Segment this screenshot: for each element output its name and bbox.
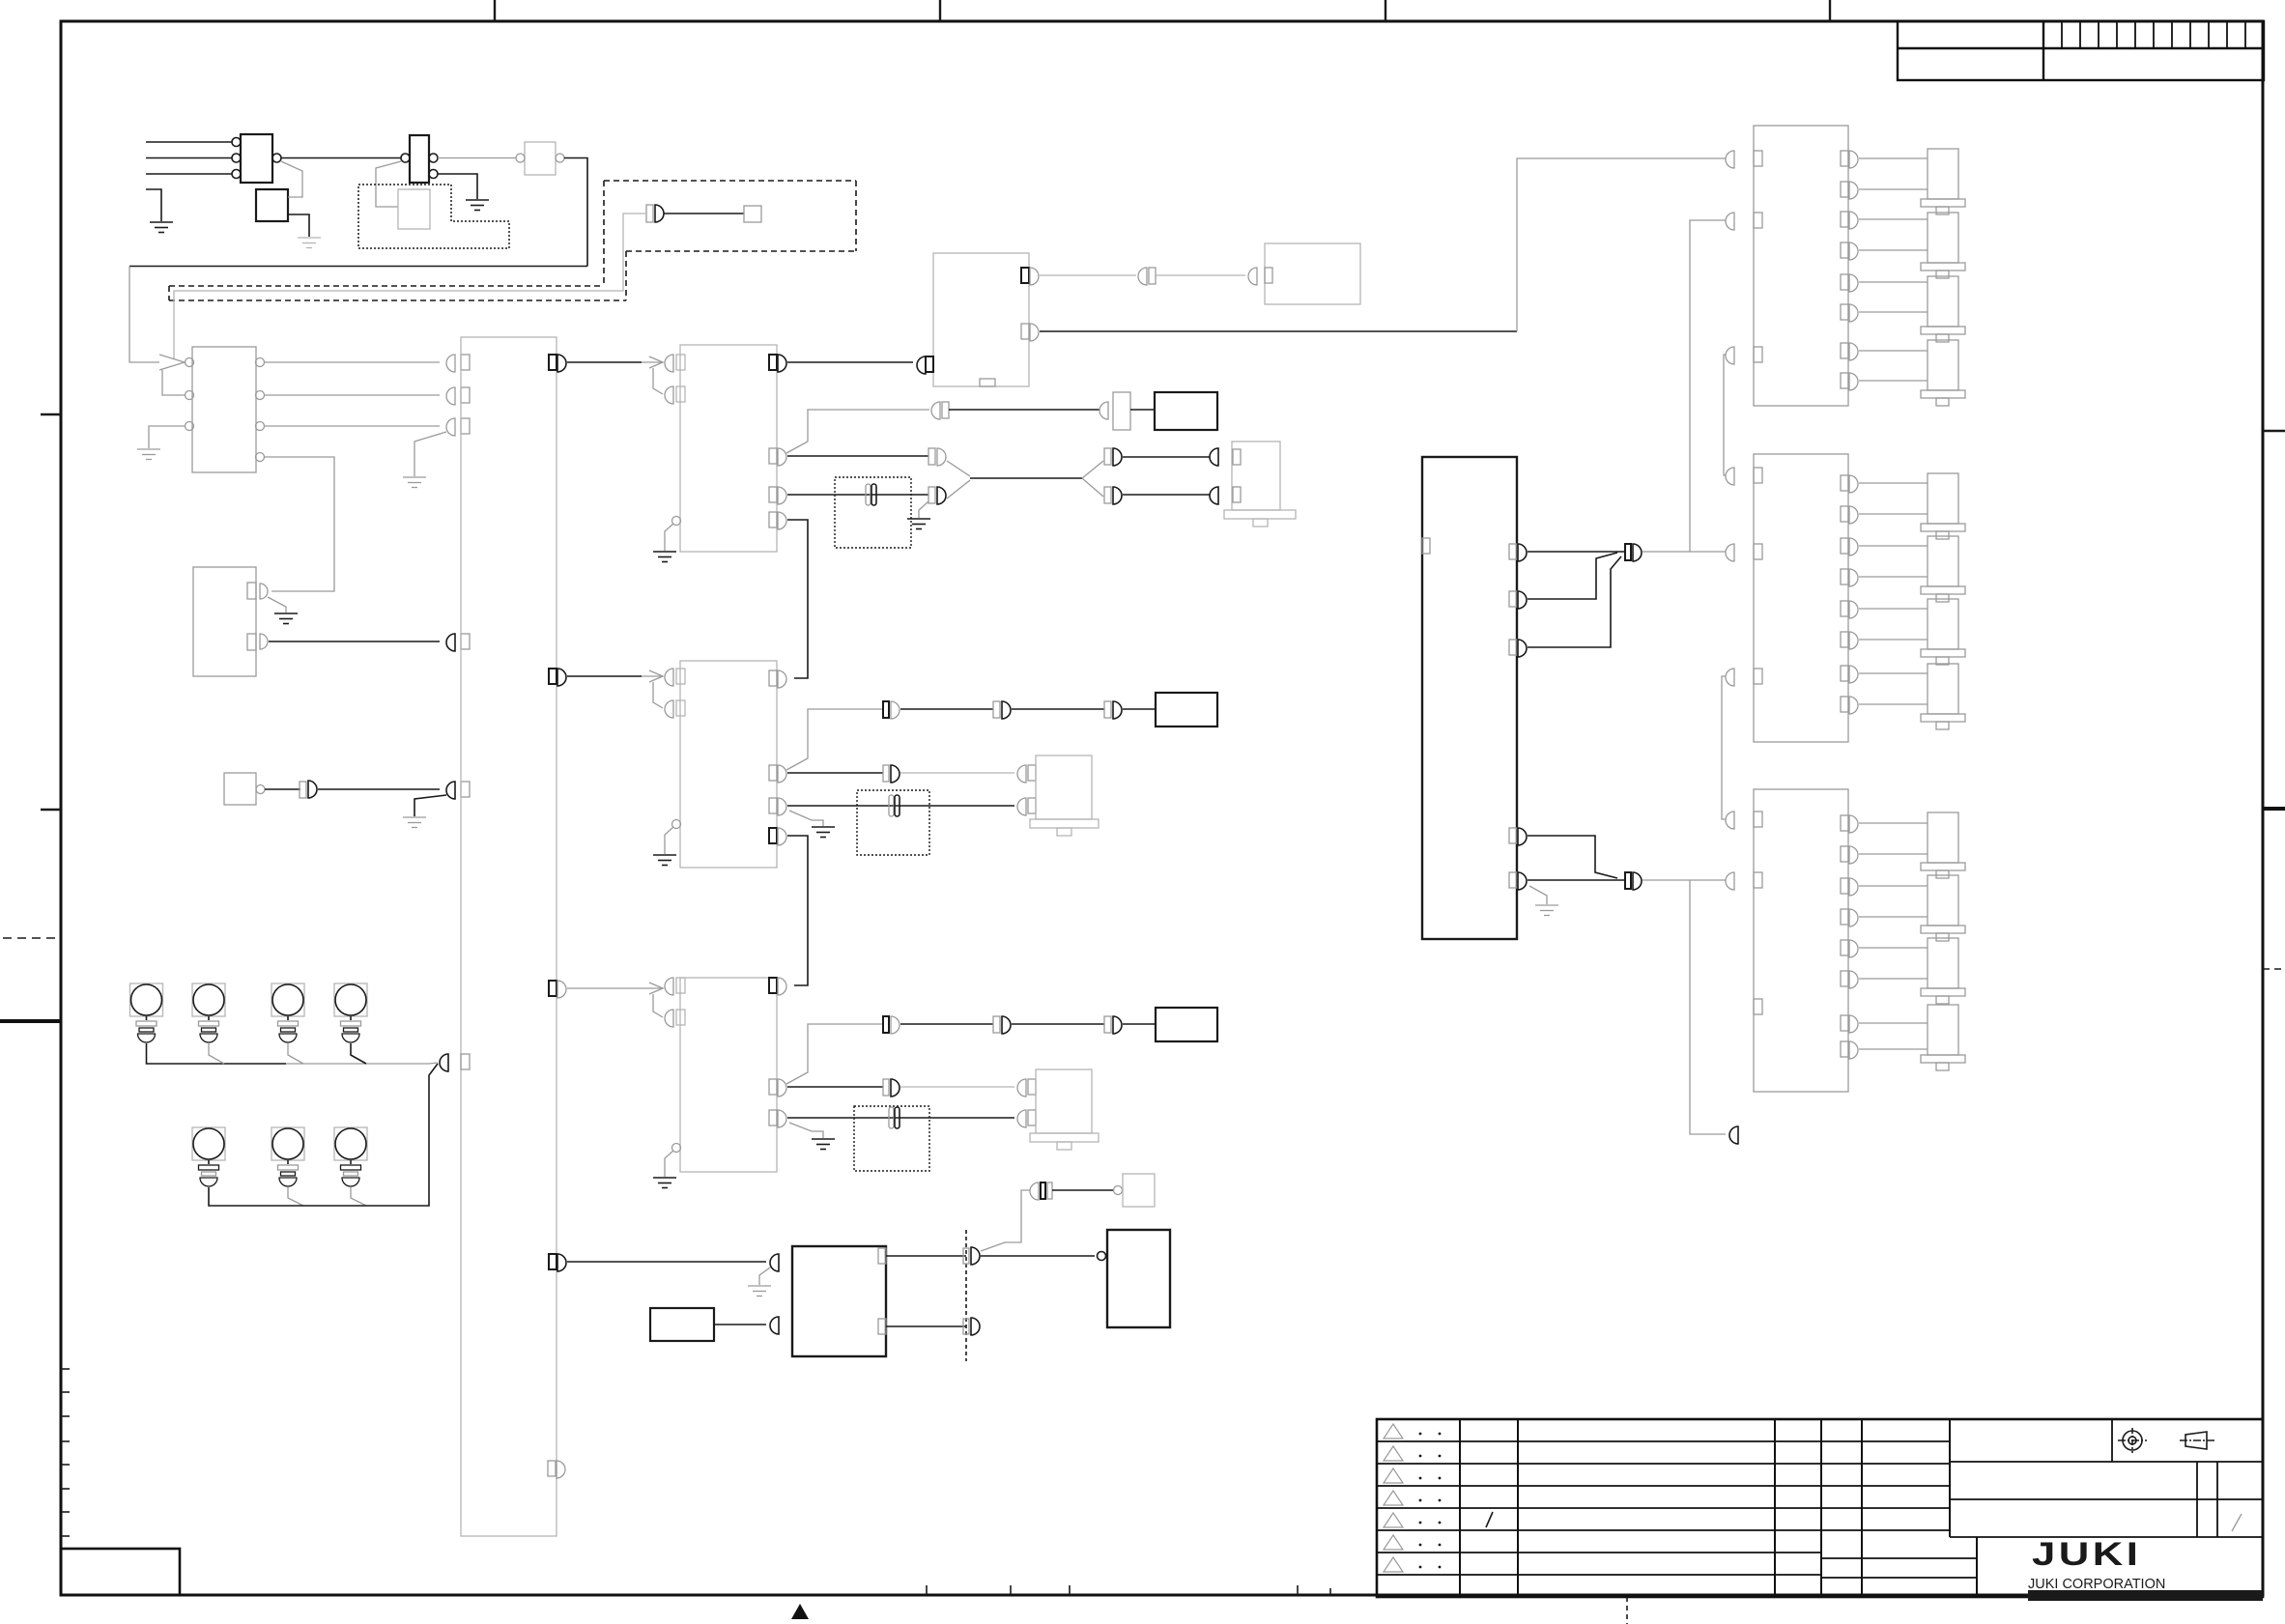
wire C to ground G3 <box>438 174 477 199</box>
bus left pin row1099 <box>440 1054 448 1071</box>
riser to B1 pin2 <box>1690 220 1726 552</box>
relay block C <box>410 135 429 183</box>
dotted box M1d <box>835 477 911 548</box>
harness split M1 <box>1082 461 1103 478</box>
ground symbol G10 <box>812 827 835 838</box>
bus right pin row1520 <box>548 1461 556 1476</box>
left border tick a <box>41 413 61 415</box>
motor3 connector D1 <box>1017 1079 1026 1097</box>
wire M2P2 <box>787 772 883 774</box>
output board B3 <box>1754 789 1848 1092</box>
ground symbol G1 <box>150 222 173 233</box>
right border tick a <box>2263 430 2285 432</box>
M3 input chevron <box>642 983 663 1017</box>
bus wire to module1 <box>567 361 642 363</box>
left border ruler ticks <box>61 1369 70 1536</box>
wire M3P2 <box>787 1086 883 1088</box>
ground symbol G15 <box>748 1286 771 1296</box>
ground symbol G11 <box>653 855 676 866</box>
dashed harness enclosure A <box>169 181 856 300</box>
M2 pin P1 <box>769 670 777 686</box>
M2P2 gray riser to row734 <box>786 709 883 770</box>
bus pin row375 <box>446 355 455 372</box>
pin circles block D <box>516 154 564 162</box>
dotted box M3d <box>854 1106 929 1171</box>
wire A to C <box>281 157 401 159</box>
B3 left pin 911 <box>1726 872 1734 890</box>
bus right pin row1023 <box>549 981 557 996</box>
JUKI black bar <box>2028 1590 2263 1601</box>
transformer box N <box>650 1308 714 1341</box>
top-right title table <box>1898 21 2264 80</box>
left border tick b <box>41 809 61 811</box>
wire K5 to pair <box>1528 879 1625 881</box>
dotted enclosure filter <box>358 185 509 248</box>
bus pin row817 <box>446 782 455 799</box>
long wire to left edge <box>129 266 587 268</box>
block G bottom pin <box>980 379 995 386</box>
M3 bottom circle pin <box>672 1144 681 1153</box>
motor 3 assembly <box>1028 1079 1036 1095</box>
bus wire to PSU <box>567 1261 766 1263</box>
module M1 driver board <box>680 345 777 552</box>
M1P2 gray riser to row424 <box>786 410 929 453</box>
K pin1 <box>1509 544 1517 559</box>
M1 input chevron <box>642 356 663 394</box>
wire E out1 <box>264 361 440 363</box>
wire down left side <box>129 267 130 363</box>
M1 pin P2 <box>769 448 777 464</box>
top border tick 4 <box>1829 0 1831 21</box>
pair connector row1232 <box>1030 1182 1039 1200</box>
K pin2 <box>1509 591 1517 607</box>
gray link A to B <box>281 161 302 197</box>
PSU left pin2 D <box>770 1317 779 1334</box>
M3 pin P3 <box>769 1110 777 1125</box>
M2 input chevron <box>642 670 663 708</box>
right border thick tick <box>2263 807 2285 811</box>
wire E out3 <box>264 425 440 427</box>
motor2 connector D1 <box>1017 765 1026 783</box>
aux box M <box>1123 1174 1155 1207</box>
row1060 wire a <box>900 1023 993 1025</box>
wire E out2 <box>264 394 440 396</box>
wire N to PSU <box>714 1324 766 1325</box>
pair top <box>1625 544 1631 560</box>
projection slash symbol <box>2232 1514 2242 1531</box>
capacitor M1 <box>866 484 876 505</box>
ground symbol G14 <box>1535 905 1558 916</box>
wire E out4 routed down <box>264 457 334 591</box>
M2 pin P4 <box>769 828 777 843</box>
wire input 2 <box>146 157 232 159</box>
lamp row1 stems <box>136 1016 361 1042</box>
link B1pin3 to B2pin1 <box>1724 355 1726 475</box>
gray drop to ground from row441 <box>414 432 446 476</box>
connector at H <box>1248 268 1257 285</box>
motor2 connector D2 <box>1017 798 1026 815</box>
boundary connector row1300 <box>963 1248 969 1264</box>
motor m9 <box>1921 812 1965 878</box>
bottom border ticks <box>927 1585 1330 1595</box>
first-angle cone symbol <box>2180 1432 2214 1449</box>
block F pin1 <box>247 583 256 599</box>
M2 ground drop <box>665 827 673 854</box>
control box K3 <box>1156 1008 1217 1041</box>
B3 left pin 848 <box>1726 812 1734 829</box>
output board B1 <box>1754 126 1848 406</box>
row1125 gray wire to motor <box>900 1086 1014 1088</box>
B1 left pin 164 <box>1726 151 1734 168</box>
control box K1 <box>1155 392 1217 430</box>
row1060 pair 3 <box>1104 1016 1111 1033</box>
K pin3 <box>1509 640 1517 655</box>
module M3 driver board <box>680 978 777 1172</box>
motor m6 <box>1921 536 1965 602</box>
top border tick 2 <box>939 0 941 21</box>
drop to lone pin <box>1690 880 1726 1134</box>
top border tick 3 <box>1385 0 1386 21</box>
block E controller <box>192 347 256 472</box>
head wires M1 <box>1123 456 1210 458</box>
row1060 wire b <box>1012 1023 1104 1025</box>
ground symbol G5 <box>403 477 426 488</box>
B2 motor wires <box>1859 483 1928 704</box>
M2 pin P3 <box>769 798 777 813</box>
motor m2 <box>1921 213 1965 278</box>
lamp row2 <box>192 1127 367 1160</box>
pair row285 <box>1138 268 1147 285</box>
pairB row512 <box>928 487 935 503</box>
pair connector row817 <box>300 782 306 798</box>
long wire G to right column <box>1040 330 1517 332</box>
top-right title table column cells <box>2062 21 2245 48</box>
wire F to bus row664 <box>269 641 440 642</box>
ground symbol G12 <box>812 1139 835 1150</box>
terminal block A <box>241 134 272 183</box>
gray branch up from row1300 <box>981 1190 1030 1251</box>
row1060 wire c <box>1123 1023 1156 1025</box>
wire M2P3 <box>787 805 1014 807</box>
B3 motor wires <box>1859 823 1928 1049</box>
revision table columns <box>1460 1419 1977 1597</box>
PSU right pin1 <box>878 1248 886 1264</box>
wire row285 to H <box>1156 274 1245 276</box>
M3P2 gray riser to row1060 <box>786 1024 883 1084</box>
row734 pair 3 <box>1104 701 1111 718</box>
K5 ground drop <box>1529 886 1547 904</box>
riser to block B1 <box>1517 158 1726 331</box>
module M2 driver board <box>680 661 777 868</box>
ground drop M3P3 <box>789 1123 823 1138</box>
wire M2P4 down to M3 <box>787 836 808 985</box>
wire input 1 <box>146 141 232 143</box>
ground symbol G8 <box>907 519 930 529</box>
head D connectors <box>1210 448 1218 466</box>
pin circles block A <box>232 138 281 179</box>
bus pin row409 <box>446 387 455 405</box>
bus wire to module2 <box>567 675 642 677</box>
boundary connector row1373 <box>963 1319 969 1334</box>
output board B2 <box>1754 454 1848 742</box>
motor 2 assembly <box>1028 765 1036 781</box>
lamp row2 harness <box>209 1187 286 1206</box>
row424 connector <box>931 402 940 419</box>
row734 wire c <box>1123 708 1156 710</box>
M1 pin P3 <box>769 487 777 502</box>
wire K4 join <box>1528 836 1617 878</box>
operation panel H <box>1265 243 1360 304</box>
block E pin circles <box>186 358 265 462</box>
B2 left pin 700 <box>1726 669 1734 686</box>
terminal block B <box>256 189 288 221</box>
right border dashed tick <box>2263 968 2285 970</box>
left border dashed tick <box>3 937 61 939</box>
power supply box PSU <box>792 1246 886 1356</box>
pedal unit J <box>224 773 256 805</box>
row734 pair 2 <box>993 701 1000 718</box>
ground symbol G3 <box>466 200 489 211</box>
ground stub input <box>146 189 161 221</box>
ground symbol G4 <box>137 449 160 460</box>
wire M1P4 down to M2 <box>787 520 808 678</box>
noise filter D block <box>525 142 556 175</box>
M1 pin P1 <box>769 355 777 370</box>
wire M3P3 <box>787 1117 1014 1119</box>
ground symbol G6 <box>274 613 298 624</box>
block F pin2 <box>247 634 256 650</box>
PSU left pin1 D <box>770 1254 779 1271</box>
filter block I <box>398 189 430 229</box>
control box K2 <box>1156 693 1217 727</box>
motor m4 <box>1921 340 1965 406</box>
wire D right and down <box>564 158 587 267</box>
B3 bottom-left pin <box>1754 999 1762 1014</box>
wire row1232 to box M <box>1052 1189 1113 1191</box>
link B2pin3 to B3pin1 <box>1722 676 1726 819</box>
wire pair to bus row817 <box>318 788 440 790</box>
row424 housing <box>1113 392 1130 430</box>
left border thick tick <box>0 1019 61 1023</box>
K left pin <box>1422 538 1430 554</box>
revision table outer <box>1377 1419 2263 1597</box>
gray wire C to filter block <box>376 161 401 207</box>
svg-text:JUKI: JUKI <box>2032 1535 2141 1572</box>
wire J to pair <box>265 788 300 790</box>
slash in revision cell <box>1486 1512 1493 1527</box>
row734 wire b <box>1012 708 1104 710</box>
block F sensor unit <box>193 567 256 676</box>
ground symbol G13 <box>653 1178 676 1188</box>
lone pin D <box>1729 1126 1738 1144</box>
first-angle crosshair symbol <box>2118 1428 2147 1453</box>
wire K1 to pair <box>1528 551 1625 553</box>
wire to box L <box>981 1255 1095 1257</box>
row1125 pair <box>883 1079 889 1096</box>
pair top output <box>1642 551 1726 553</box>
gray harness wire <box>174 214 645 359</box>
M2 bottom circle pin <box>672 820 681 829</box>
wire B to ground <box>288 214 309 237</box>
M1 bottom circle pin <box>672 517 681 526</box>
wire PSU out1 <box>886 1255 966 1257</box>
M1 ground drop <box>665 524 673 551</box>
wire M1P2 row <box>787 455 928 457</box>
bus wire to module3 <box>567 987 642 989</box>
B2 right pins <box>1841 475 1858 714</box>
gray wire C to D <box>438 157 516 159</box>
row734 wire a <box>900 708 993 710</box>
revision table rows left section <box>1377 1441 1977 1578</box>
B1 left pin 367 <box>1726 347 1734 364</box>
ground drop M2P3 <box>789 811 823 826</box>
row1060 connector <box>883 1016 889 1033</box>
svg-text:JUKI CORPORATION: JUKI CORPORATION <box>2028 1577 2165 1592</box>
motor m1 <box>1921 149 1965 214</box>
wire M1P1 to block G <box>787 361 913 363</box>
B2 left pin 492 <box>1726 468 1734 485</box>
row424 connector 2 <box>1100 402 1108 419</box>
M3 pin P1 <box>769 978 777 993</box>
motor3 connector D2 <box>1017 1110 1026 1127</box>
lamp row1 harness <box>147 1043 287 1064</box>
B1 right pins <box>1841 151 1858 390</box>
K pin4 <box>1509 828 1517 843</box>
bus pin row441 <box>446 418 455 436</box>
B1 motor wires <box>1859 158 1928 381</box>
pair bottom output <box>1642 879 1726 881</box>
bus pin row664 <box>446 634 455 651</box>
motor m5 <box>1921 473 1965 539</box>
PSU right pin2 <box>878 1319 886 1334</box>
capacitor M3 <box>889 1107 900 1128</box>
motor m3 <box>1921 276 1965 342</box>
ground symbol G9 <box>653 552 676 562</box>
panel dashed boundary <box>965 1230 967 1361</box>
block G left pin <box>917 356 926 374</box>
head unit body <box>1232 442 1280 510</box>
bus right pin row1306 <box>549 1254 557 1269</box>
wire input 3 <box>146 173 232 175</box>
wire PSU out2 <box>886 1325 966 1327</box>
M1 pin P4 <box>769 512 777 527</box>
wire housing to K1 <box>1130 409 1155 411</box>
ground symbol G7 <box>403 817 426 828</box>
B3 right pins <box>1841 815 1858 1059</box>
B2 left pin 571 <box>1726 544 1734 561</box>
bus right pin row375 <box>549 355 557 370</box>
bus right pin row700 <box>549 669 557 684</box>
M2 pin P2 <box>769 765 777 781</box>
pairA row472 <box>928 448 935 465</box>
row734 connector <box>883 701 889 718</box>
lamp row2 stems <box>199 1160 361 1186</box>
motor m8 <box>1921 664 1965 729</box>
drop to ground row817 <box>414 795 446 816</box>
M3 ground drop <box>665 1151 673 1177</box>
main bus board <box>461 337 557 1536</box>
capacitor M2 <box>889 795 900 816</box>
harness trunk M1 <box>970 477 1082 479</box>
bottom-left reference box <box>61 1549 180 1595</box>
bottom center triangle marker <box>791 1604 809 1619</box>
B1 left pin 228 <box>1726 213 1734 230</box>
motor m12 <box>1921 1005 1965 1070</box>
wire E pin3 to ground <box>149 426 185 448</box>
small plug square <box>744 206 761 222</box>
drop to ground from F pin1 <box>268 597 286 613</box>
motor m10 <box>1921 875 1965 941</box>
ground symbol G2 gray <box>298 238 321 248</box>
lamp row1 <box>130 983 368 1016</box>
K pin5 <box>1509 872 1517 888</box>
pair bottom <box>1625 872 1631 889</box>
harness merge M1 <box>947 461 970 476</box>
row800 pair <box>883 765 889 782</box>
block G top-right pin <box>1021 268 1029 283</box>
head unit flange <box>1224 510 1296 519</box>
PSU pin1 ground drop <box>759 1268 770 1285</box>
relay board K <box>1422 457 1517 939</box>
interface block G <box>933 253 1029 386</box>
row1060 pair 2 <box>993 1016 1000 1033</box>
machine control box L <box>1107 1230 1170 1327</box>
row424 wire <box>949 409 1100 411</box>
wire M1P3 row <box>787 494 928 496</box>
pairs right M1 <box>1104 448 1111 465</box>
connector pair in harness <box>646 205 653 222</box>
chevron input arrow <box>129 355 185 395</box>
row800 gray wire to motor <box>900 772 1014 774</box>
top border tick 1 <box>494 0 496 21</box>
wire to small plug <box>664 213 744 214</box>
motor m11 <box>1921 938 1965 1004</box>
wire G to pair row285 <box>1040 274 1136 276</box>
ground drop pairB <box>919 501 928 518</box>
wire K2 join <box>1528 553 1617 599</box>
wire K3 join <box>1528 556 1621 647</box>
block G mid pin <box>1021 324 1029 339</box>
M3 pin P2 <box>769 1079 777 1095</box>
revision triangles and dots <box>1384 1424 1403 1572</box>
motor m7 <box>1921 599 1965 665</box>
revision table right section lines <box>1950 1419 2263 1537</box>
bottom dash-dot line below table <box>1626 1597 1628 1624</box>
pin circles block C <box>401 154 438 179</box>
dotted box M2d <box>857 790 929 855</box>
